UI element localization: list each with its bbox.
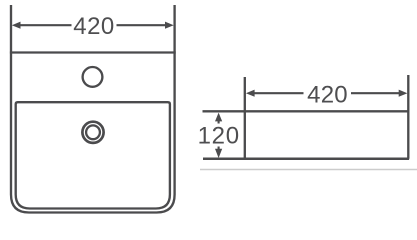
height dimension line upper segment <box>218 121 220 124</box>
basin top view: inner bowl outline <box>16 102 170 208</box>
height dimension line lower segment <box>218 147 220 150</box>
drain inner ring <box>86 125 100 139</box>
side view: bottom edge with left extension <box>203 158 409 161</box>
drain outer ring <box>82 122 103 143</box>
height dimension up arrowhead <box>215 113 222 122</box>
top-view dimension right arrowhead <box>165 22 174 29</box>
side-view width dimension line right segment <box>351 92 400 94</box>
svg-text:420: 420 <box>73 13 115 40</box>
side-view width dimension line left segment <box>254 92 304 94</box>
faucet hole <box>83 67 103 87</box>
top-view dimension line right segment <box>117 24 167 26</box>
svg-text:120: 120 <box>198 123 240 150</box>
basin top view: outer outline with extension lines <box>11 5 175 213</box>
side view: left edge with extension <box>244 77 246 159</box>
side view: top edge with left extension <box>203 110 409 112</box>
top-view dimension line left segment <box>20 24 72 26</box>
svg-text:420: 420 <box>307 81 348 108</box>
side view: right edge with extension <box>407 75 409 159</box>
faint shadow line under side view <box>200 169 417 171</box>
height dimension down arrowhead <box>215 149 222 158</box>
basin top view: top edge <box>10 51 176 53</box>
top-view dimension left arrowhead <box>12 22 21 29</box>
side-view width dimension left arrowhead <box>246 90 255 97</box>
side-view width dimension right arrowhead <box>399 90 408 97</box>
